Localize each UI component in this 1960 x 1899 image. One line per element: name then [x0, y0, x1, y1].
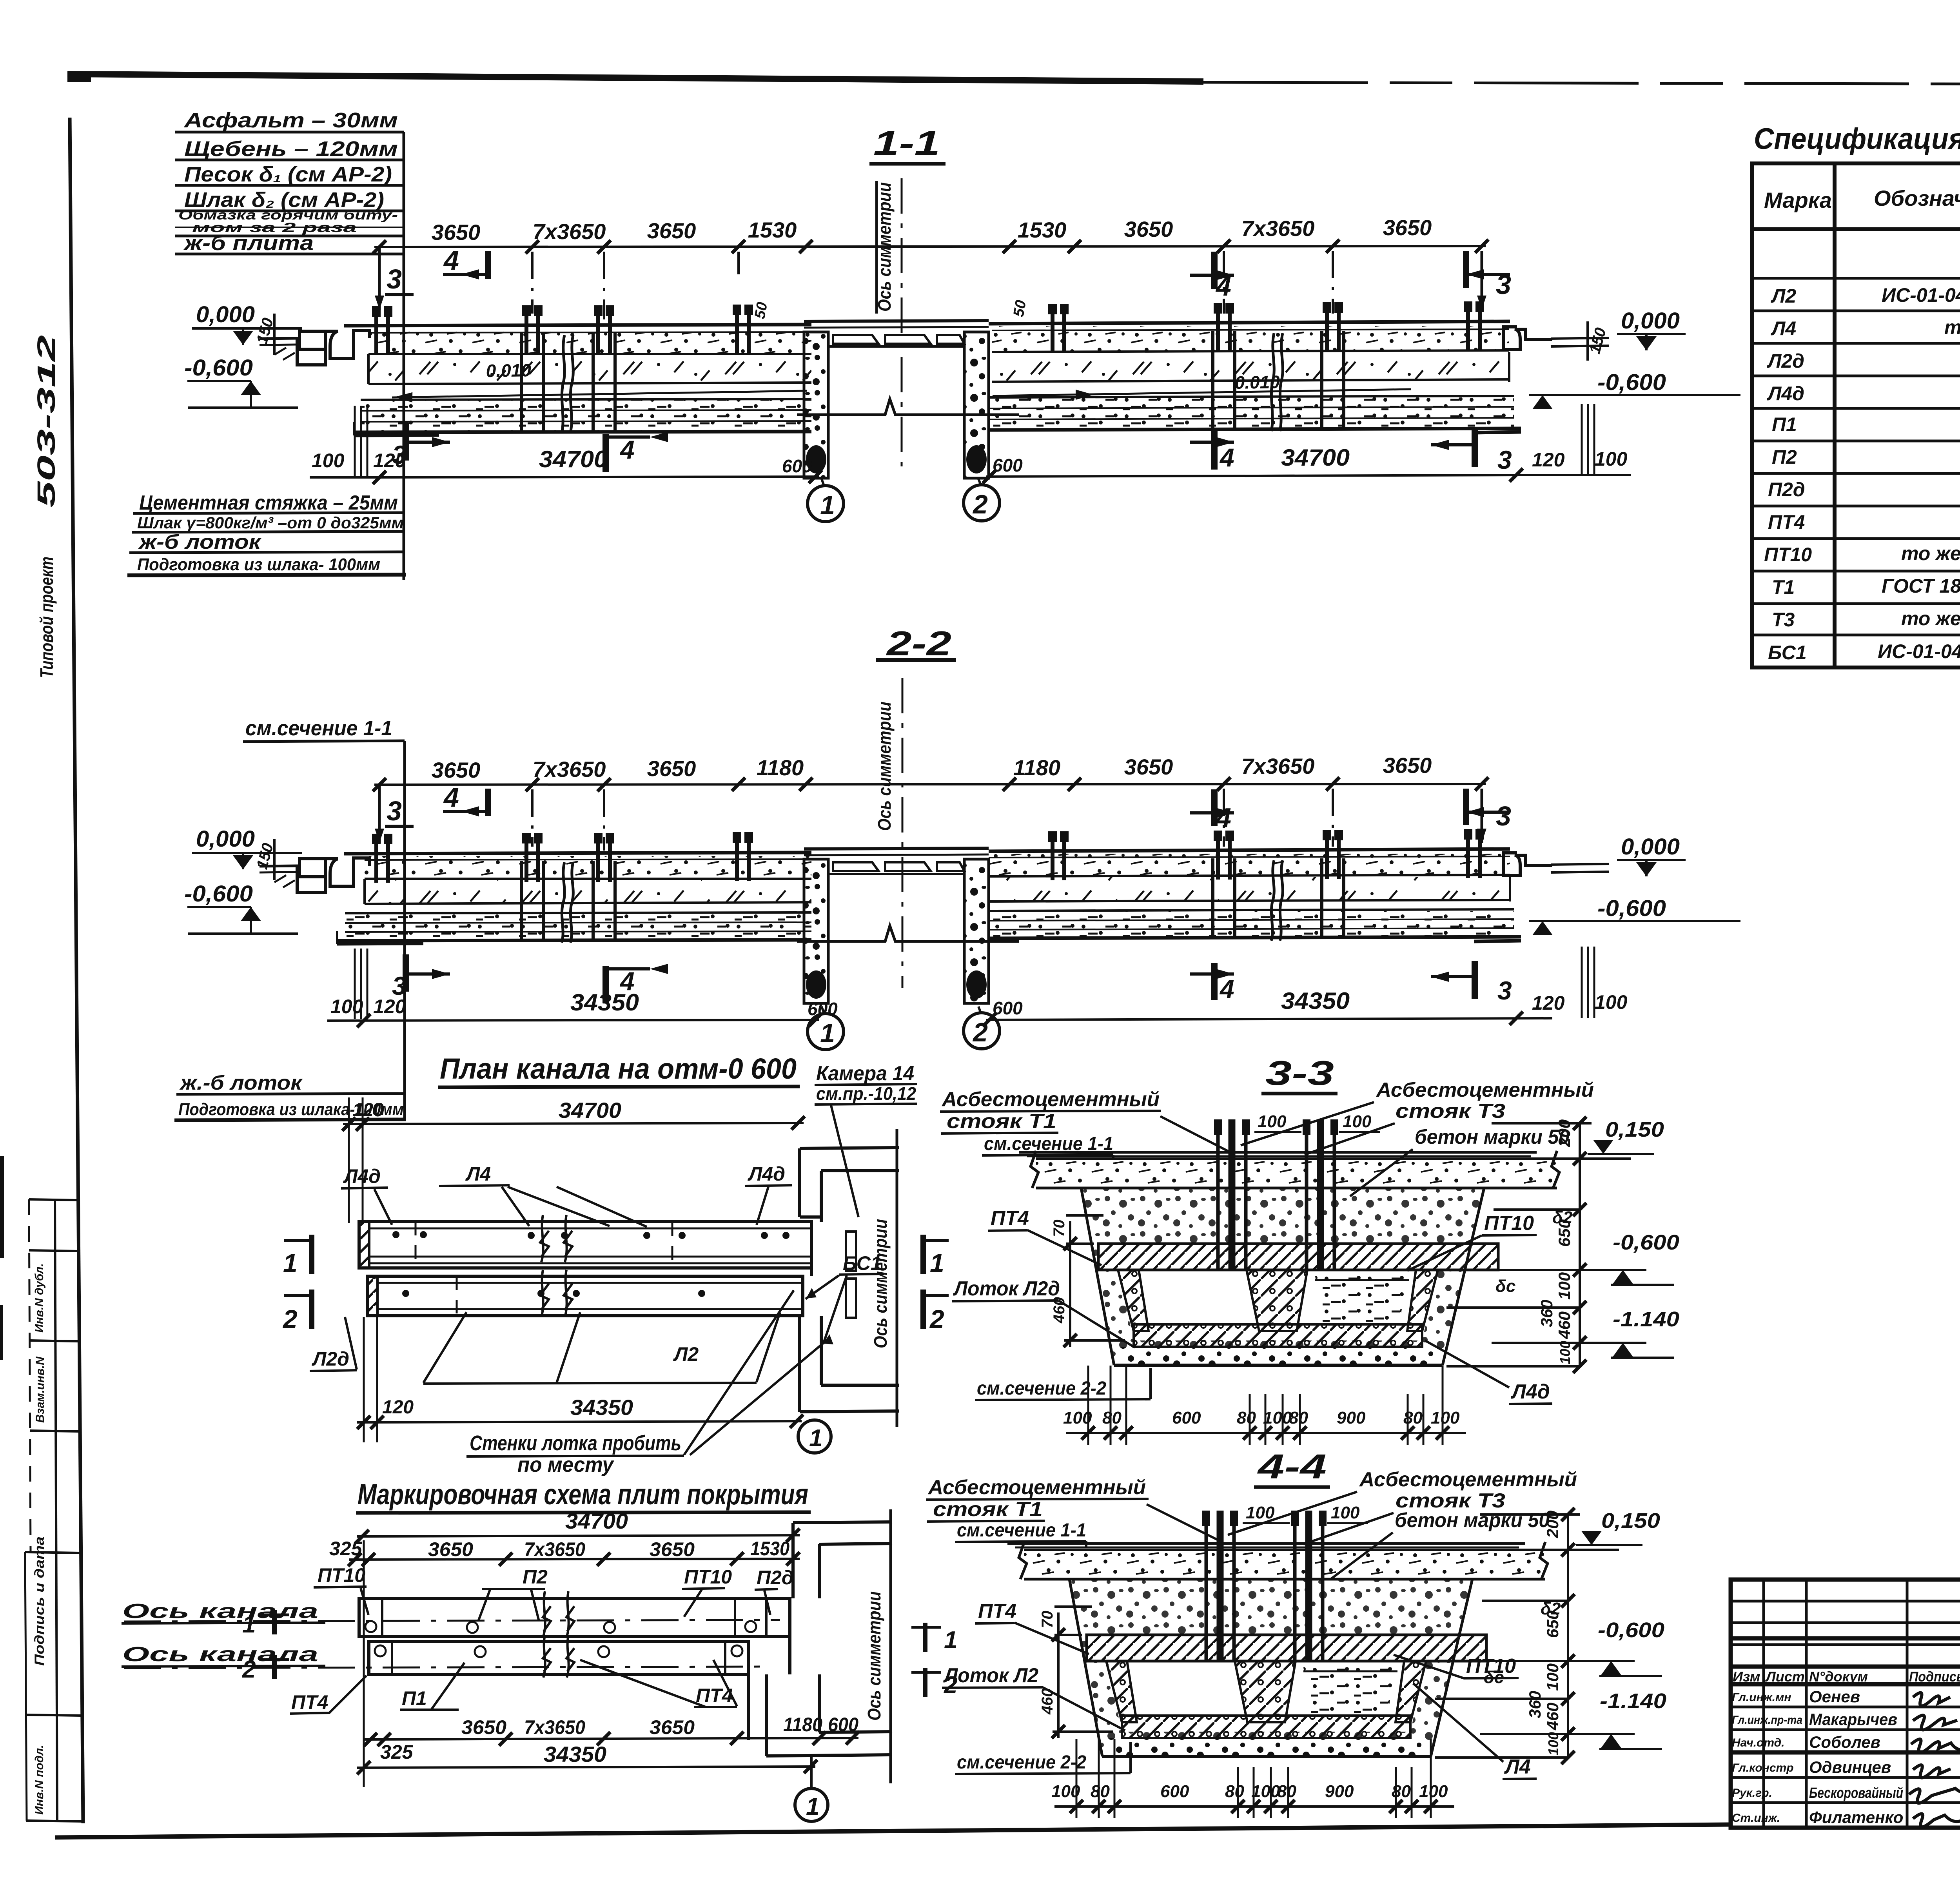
svg-text:ж.-б лоток: ж.-б лоток [179, 1072, 303, 1094]
bottom frame [55, 1825, 1731, 1837]
svg-text:см.сечение 1-1: см.сечение 1-1 [245, 716, 392, 740]
svg-text:Цементная стяжка – 25мм: Цементная стяжка – 25мм [139, 492, 398, 514]
materials list 2 (below section 1-1 left) [127, 492, 406, 575]
svg-text:-0,600: -0,600 [1598, 1618, 1664, 1642]
svg-text:Рук.гр.: Рук.гр. [1732, 1787, 1772, 1799]
svg-text:Инв.N дубл.: Инв.N дубл. [33, 1263, 46, 1333]
svg-text:3650: 3650 [650, 1538, 695, 1560]
svg-text:50: 50 [1011, 299, 1030, 318]
svg-text:3650: 3650 [650, 1716, 695, 1738]
svg-text:-1.140: -1.140 [1613, 1308, 1679, 1331]
svg-text:34700: 34700 [559, 1098, 621, 1123]
svg-text:4: 4 [619, 435, 635, 464]
svg-text:34350: 34350 [570, 1395, 633, 1420]
svg-text:4: 4 [1219, 443, 1234, 472]
svg-text:2: 2 [242, 1656, 256, 1683]
svg-text:600: 600 [782, 456, 812, 476]
svg-text:3650: 3650 [432, 220, 481, 245]
svg-text:ПТ4: ПТ4 [291, 1691, 328, 1713]
svg-text:1: 1 [283, 1248, 298, 1277]
svg-text:34350: 34350 [1281, 988, 1350, 1014]
svg-text:Асбестоцементный: Асбестоцементный [941, 1088, 1160, 1111]
svg-text:1180: 1180 [757, 755, 804, 780]
svg-text:Нач.отд.: Нач.отд. [1732, 1736, 1785, 1749]
svg-text:Подпись: Подпись [1909, 1669, 1960, 1685]
grid circles [808, 479, 1000, 522]
svg-text:см.сечение 1-1: см.сечение 1-1 [957, 1520, 1086, 1541]
svg-text:Гл.инж.мн: Гл.инж.мн [1732, 1691, 1791, 1704]
specification table [1752, 122, 1960, 667]
svg-text:Л4д: Л4д [748, 1163, 785, 1185]
camera outline right [800, 1148, 899, 1412]
svg-text:1: 1 [806, 1793, 819, 1820]
svg-text:стояк Т1: стояк Т1 [933, 1498, 1043, 1521]
svg-text:100: 100 [312, 450, 345, 472]
svg-text:7х3650: 7х3650 [533, 219, 606, 244]
svg-text:Гл.констр: Гл.констр [1732, 1761, 1794, 1774]
svg-text:бетон марки 50: бетон марки 50 [1395, 1509, 1550, 1532]
plan 1/2 T marks left (plan view) [286, 1240, 287, 1241]
grid circle 1 [798, 1420, 831, 1453]
svg-text:4: 4 [1219, 974, 1234, 1003]
svg-text:ПТ4: ПТ4 [991, 1207, 1029, 1230]
svg-text:1: 1 [809, 1425, 822, 1452]
svg-text:Л4: Л4 [1504, 1756, 1531, 1778]
section cut marks 3,4 top [387, 245, 1511, 301]
svg-text:Марка: Марка [1764, 188, 1832, 212]
svg-text:ПТ4: ПТ4 [1768, 511, 1805, 533]
svg-text:7х3650: 7х3650 [1241, 216, 1315, 241]
svg-text:Шлак γ=800кг/м³ –от 0 до325мм: Шлак γ=800кг/м³ –от 0 до325мм [137, 513, 404, 532]
svg-text:см.пр.-10,12: см.пр.-10,12 [816, 1083, 916, 1104]
svg-text:План канала на отм-0 600: План канала на отм-0 600 [440, 1052, 797, 1085]
svg-text:34700: 34700 [565, 1509, 628, 1533]
svg-text:7х3650: 7х3650 [524, 1716, 585, 1738]
svg-text:Оенев: Оенев [1809, 1687, 1860, 1706]
svg-text:ПТ10: ПТ10 [684, 1566, 732, 1588]
svg-text:Гл.инж.пр-та: Гл.инж.пр-та [1732, 1714, 1802, 1727]
svg-text:2: 2 [972, 490, 988, 519]
svg-text:Ось симметрии: Ось симметрии [864, 1591, 884, 1721]
level marks left [184, 302, 302, 408]
svg-text:34700: 34700 [1281, 444, 1350, 471]
svg-text:4: 4 [619, 967, 635, 996]
svg-text:4: 4 [443, 782, 459, 813]
section marks left/right of plan [312, 1235, 923, 1329]
svg-text:Макарычев: Макарычев [1809, 1710, 1897, 1729]
svg-text:1: 1 [820, 1018, 835, 1048]
svg-text:34350: 34350 [544, 1742, 606, 1767]
svg-text:Л2д: Л2д [312, 1348, 349, 1370]
svg-text:3650: 3650 [432, 758, 481, 782]
svg-text:ПТ10: ПТ10 [1484, 1212, 1534, 1235]
svg-text:П2: П2 [1772, 446, 1797, 468]
level marks right [1529, 308, 1740, 409]
svg-text:120: 120 [1532, 992, 1565, 1014]
left curb [260, 330, 369, 365]
svg-text:то же: то же [1944, 316, 1960, 338]
svg-text:ИС-01-04 вып.2: ИС-01-04 вып.2 [1882, 284, 1960, 306]
svg-text:Асбестоцементный: Асбестоцементный [1359, 1468, 1577, 1491]
svg-text:Филатенко: Филатенко [1809, 1808, 1903, 1826]
center walls and opening [797, 321, 1019, 478]
svg-text:325: 325 [380, 1741, 414, 1763]
svg-text:0,150: 0,150 [1601, 1509, 1660, 1533]
svg-text:1180: 1180 [1013, 755, 1060, 780]
svg-text:Т3: Т3 [1772, 609, 1795, 631]
materials list 3 (below section 2-2 left) [174, 741, 406, 1120]
svg-text:П2д: П2д [1768, 479, 1805, 501]
upper dimension line [373, 215, 1488, 319]
svg-text:-0,600: -0,600 [184, 355, 253, 381]
svg-text:Лоток Л2д: Лоток Л2д [953, 1277, 1060, 1300]
top thick line [67, 74, 1203, 82]
svg-text:Ось канала: Ось канала [122, 1600, 318, 1623]
svg-text:ГОСТ 1839-72: ГОСТ 1839-72 [1882, 575, 1960, 597]
svg-text:1: 1 [820, 490, 835, 520]
svg-text:N°докум: N°докум [1809, 1669, 1868, 1685]
svg-text:3: 3 [1496, 801, 1511, 831]
svg-text:Взам.инв.N: Взам.инв.N [34, 1356, 47, 1423]
svg-text:3: 3 [387, 264, 402, 294]
signatures [1909, 1693, 1960, 1827]
svg-text:Лоток Л2: Лоток Л2 [943, 1664, 1038, 1687]
см.сечение 1-1 label above 2-2 [243, 716, 405, 742]
svg-text:3650: 3650 [1124, 217, 1173, 241]
svg-text:1: 1 [944, 1627, 957, 1654]
joints + risers left [376, 306, 388, 355]
svg-text:Л4: Л4 [1771, 317, 1796, 339]
svg-text:Камера 14: Камера 14 [816, 1062, 914, 1085]
svg-text:Спецификация элементов, распо: Спецификация элементов, расположенных на… [1754, 122, 1960, 156]
svg-text:600: 600 [993, 998, 1023, 1018]
svg-text:Л4д: Л4д [1767, 383, 1804, 404]
svg-text:ПТ10: ПТ10 [318, 1564, 365, 1586]
dims row2 [461, 1714, 858, 1738]
svg-text:3650: 3650 [647, 218, 696, 243]
svg-text:-1.140: -1.140 [1600, 1689, 1666, 1713]
svg-text:50: 50 [752, 301, 771, 320]
svg-text:Ось симметрии: Ось симметрии [870, 1219, 891, 1348]
svg-text:4-4: 4-4 [1257, 1447, 1327, 1486]
svg-text:Ось канала: Ось канала [122, 1643, 318, 1666]
svg-text:П1: П1 [402, 1687, 427, 1709]
svg-text:Подготовка из шлака- 100мм: Подготовка из шлака- 100мм [137, 555, 380, 574]
svg-text:БС1: БС1 [1768, 642, 1807, 664]
svg-text:ПТ10: ПТ10 [1466, 1655, 1516, 1678]
svg-text:3650: 3650 [1383, 215, 1432, 240]
svg-text:503-312: 503-312 [32, 335, 60, 508]
svg-text:-0,600: -0,600 [184, 881, 253, 907]
lower plate band [369, 1635, 748, 1678]
svg-text:3650: 3650 [1124, 755, 1173, 779]
svg-text:Ст.инж.: Ст.инж. [1732, 1812, 1780, 1825]
svg-text:2-2: 2-2 [886, 624, 951, 663]
svg-text:Типовой проект: Типовой проект [36, 557, 57, 678]
svg-text:-0,600: -0,600 [1597, 370, 1666, 395]
svg-text:1530: 1530 [750, 1538, 789, 1560]
svg-text:4: 4 [1215, 802, 1231, 833]
svg-text:Л4д: Л4д [343, 1165, 381, 1187]
svg-text:3: 3 [1497, 445, 1512, 474]
svg-text:стояк Т3: стояк Т3 [1396, 1100, 1505, 1123]
svg-text:то же: то же [1901, 542, 1960, 564]
svg-text:0.010: 0.010 [486, 360, 531, 381]
bottom dims [310, 404, 1631, 484]
svg-text:1-1: 1-1 [873, 123, 940, 162]
svg-text:ПТ4: ПТ4 [978, 1600, 1016, 1623]
svg-text:ПТ10: ПТ10 [1764, 544, 1812, 566]
svg-text:см.сечение 2-2: см.сечение 2-2 [977, 1378, 1106, 1399]
svg-text:Л2: Л2 [673, 1343, 699, 1365]
upper channel band [359, 1215, 811, 1268]
svg-text:Стенки лотка пробить: Стенки лотка пробить [470, 1431, 681, 1455]
right half band [989, 321, 1521, 433]
svg-text:150: 150 [1586, 326, 1610, 355]
svg-text:Л2д: Л2д [1767, 350, 1804, 372]
svg-text:ИС-01-04 вып. 2: ИС-01-04 вып. 2 [1878, 640, 1960, 662]
left half band [344, 325, 811, 435]
svg-text:Соболев: Соболев [1809, 1733, 1880, 1751]
svg-text:П2д: П2д [757, 1567, 794, 1589]
svg-text:0,000: 0,000 [1621, 834, 1680, 860]
labels below [291, 1685, 733, 1713]
svg-text:1180: 1180 [783, 1714, 822, 1736]
svg-text:0,000: 0,000 [196, 302, 255, 327]
upper plate band [359, 1591, 790, 1636]
svg-text:100: 100 [1595, 448, 1628, 470]
title block [1731, 1580, 1960, 1828]
left form column [29, 1199, 31, 1552]
svg-text:100: 100 [330, 996, 363, 1018]
svg-text:3650: 3650 [647, 756, 696, 781]
svg-text:Т1: Т1 [1772, 576, 1795, 598]
svg-text:бетон марки 50: бетон марки 50 [1415, 1126, 1570, 1148]
svg-text:3650: 3650 [461, 1716, 506, 1738]
svg-text:4: 4 [443, 245, 459, 276]
svg-text:0,000: 0,000 [1621, 308, 1680, 334]
svg-text:то же: то же [1901, 608, 1960, 629]
svg-text:Инв.N подл.: Инв.N подл. [33, 1745, 46, 1815]
right curb [1504, 327, 1609, 350]
svg-text:Л2: Л2 [1771, 285, 1796, 307]
svg-text:см.сечение 2-2: см.сечение 2-2 [957, 1752, 1086, 1773]
svg-text:1: 1 [930, 1248, 944, 1277]
svg-text:Маркировочная схема плит покры: Маркировочная схема плит покрытия [358, 1478, 808, 1511]
svg-text:Обозначение: Обозначение [1874, 186, 1960, 210]
svg-text:3: 3 [1497, 976, 1512, 1005]
svg-text:Изм: Изм [1733, 1669, 1760, 1685]
svg-text:Ось симметрии: Ось симметрии [874, 702, 895, 831]
svg-text:2: 2 [929, 1304, 944, 1333]
svg-text:Одвинцев: Одвинцев [1809, 1758, 1891, 1776]
svg-text:Л4: Л4 [465, 1163, 491, 1185]
svg-text:Асбестоцементный: Асбестоцементный [1376, 1079, 1594, 1101]
grid circle [795, 1788, 828, 1821]
camera outline right [748, 1522, 892, 1756]
svg-text:1530: 1530 [748, 218, 797, 242]
svg-text:Щебень – 120мм: Щебень – 120мм [184, 137, 398, 161]
svg-text:стояк Т1: стояк Т1 [947, 1110, 1056, 1133]
svg-text:7х3650: 7х3650 [533, 757, 606, 782]
svg-text:7х3650: 7х3650 [1241, 754, 1315, 778]
svg-text:34700: 34700 [539, 446, 608, 472]
svg-text:0,150: 0,150 [1605, 1118, 1664, 1141]
svg-text:П1: П1 [1772, 414, 1797, 435]
svg-text:2: 2 [282, 1304, 298, 1333]
svg-text:3650: 3650 [1383, 753, 1432, 778]
svg-text:1: 1 [242, 1611, 256, 1638]
svg-text:3-3: 3-3 [1265, 1054, 1334, 1092]
lower channel band [367, 1270, 803, 1317]
T marks right [923, 1623, 927, 1697]
svg-text:Л4д: Л4д [1510, 1380, 1550, 1403]
svg-text:Песок δ₁ (см АР-2): Песок δ₁ (см АР-2) [184, 163, 392, 186]
svg-text:-0,600: -0,600 [1597, 896, 1666, 921]
svg-text:120: 120 [1532, 449, 1565, 471]
svg-text:120: 120 [382, 1397, 414, 1418]
svg-text:Бескоровайный: Бескоровайный [1809, 1785, 1903, 1801]
svg-text:см.сечение 1-1: см.сечение 1-1 [984, 1134, 1113, 1154]
svg-text:Асбестоцементный: Асбестоцементный [927, 1476, 1146, 1499]
svg-text:100: 100 [1595, 991, 1628, 1013]
svg-text:Лист: Лист [1765, 1669, 1805, 1685]
svg-text:2: 2 [972, 1018, 988, 1047]
svg-text:-0,600: -0,600 [1613, 1231, 1679, 1254]
svg-text:Асфальт – 30мм: Асфальт – 30мм [183, 109, 398, 132]
svg-text:7х3650: 7х3650 [524, 1538, 585, 1560]
svg-text:1530: 1530 [1018, 218, 1067, 242]
axis of symmetry [901, 178, 903, 472]
materials list top-left [175, 109, 404, 580]
svg-text:П2: П2 [523, 1566, 548, 1588]
svg-text:Подпись и дата: Подпись и дата [32, 1536, 47, 1666]
svg-text:3650: 3650 [428, 1538, 473, 1560]
svg-text:ж-б лоток: ж-б лоток [138, 531, 262, 553]
svg-text:3: 3 [387, 796, 402, 826]
svg-text:0,000: 0,000 [196, 826, 255, 852]
section marks 3,4 bottom [392, 435, 1512, 474]
left frame [70, 118, 83, 1823]
svg-text:600: 600 [993, 455, 1023, 475]
